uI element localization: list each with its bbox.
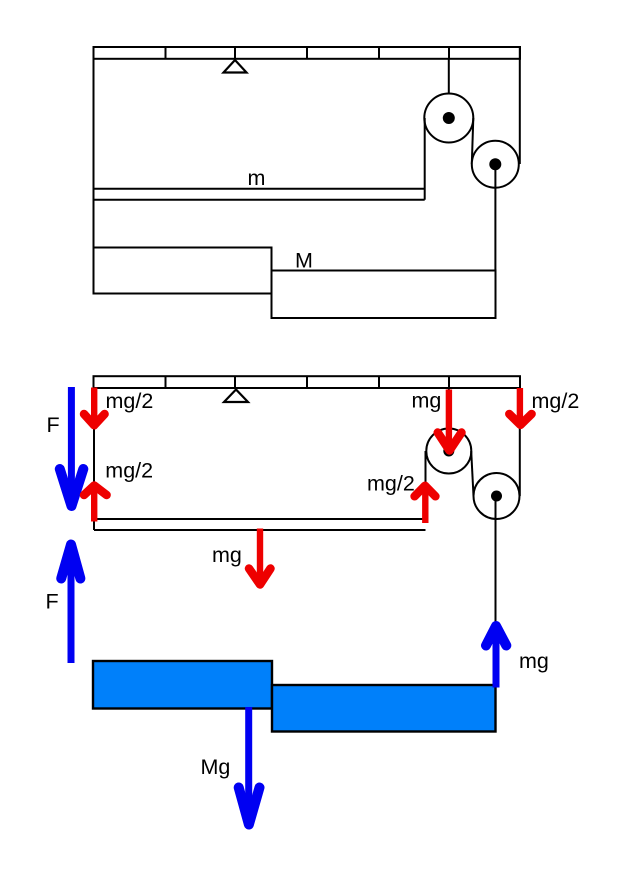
string from pulley P3 down to platform (bottom): [425, 451, 427, 519]
svg-text:Mg: Mg: [201, 755, 231, 779]
force arrow blue F down (left): [60, 387, 84, 506]
pulley P3 (bottom diagram): [426, 429, 471, 474]
right wall (top diagram): [519, 47, 521, 164]
pivot triangle (top diagram): [224, 60, 247, 73]
svg-text:F: F: [47, 413, 60, 437]
pulley P2 (top diagram): [472, 141, 519, 188]
left step block (top diagram): [94, 248, 272, 294]
pulley P1 (top diagram): [424, 94, 473, 143]
string from beam to pulley P3: [448, 388, 450, 451]
blue block right (bottom diagram): [272, 685, 496, 732]
force arrow red mg down (onto pulley P3): [438, 390, 462, 451]
left wall (top diagram): [93, 59, 95, 294]
svg-text:m: m: [248, 166, 266, 190]
svg-text:mg/2: mg/2: [105, 459, 153, 483]
svg-text:F: F: [46, 590, 59, 614]
pivot triangle (bottom diagram): [224, 390, 248, 403]
svg-text:mg/2: mg/2: [367, 472, 415, 496]
force arrow blue mg up (string above blue block): [486, 626, 506, 688]
beam (bottom diagram): [94, 376, 521, 388]
beam (top diagram): [94, 47, 521, 59]
left wall (bottom diagram): [93, 388, 95, 519]
force arrow blue Mg down (below blue block): [239, 707, 260, 825]
force arrow red mg/2 down (top-left of beam): [84, 388, 105, 426]
pulley P4 (bottom diagram): [474, 473, 520, 519]
force arrow blue F up (lower left): [61, 545, 80, 664]
belt between pulleys P1 and P2: [472, 118, 474, 164]
svg-text:mg: mg: [519, 649, 549, 673]
string from pulley P4 down to blue block: [495, 496, 497, 686]
string from pulley P1 down to platform m: [424, 118, 426, 200]
svg-text:mg: mg: [412, 389, 442, 413]
force arrow red mg/2 down (right wall): [509, 388, 531, 425]
force arrow red mg/2 up (left, onto platform): [84, 486, 107, 522]
block M (top diagram): [272, 271, 496, 319]
platform (bottom diagram): [94, 519, 426, 530]
force arrow red mg down (below platform center): [249, 529, 271, 585]
string from beam to pulley P1: [448, 59, 450, 118]
svg-text:mg: mg: [212, 543, 242, 567]
belt between pulleys P3 and P4: [471, 451, 473, 496]
svg-text:mg/2: mg/2: [532, 389, 580, 413]
right wall (bottom diagram): [519, 388, 521, 496]
blue block left (bottom diagram): [93, 661, 272, 709]
svg-text:mg/2: mg/2: [106, 389, 154, 413]
string from pulley P2 down to block M: [494, 164, 496, 318]
svg-text:M: M: [295, 249, 313, 273]
force arrow red mg/2 up (right end of platform): [415, 486, 436, 523]
platform m (tray, top diagram): [94, 189, 425, 200]
